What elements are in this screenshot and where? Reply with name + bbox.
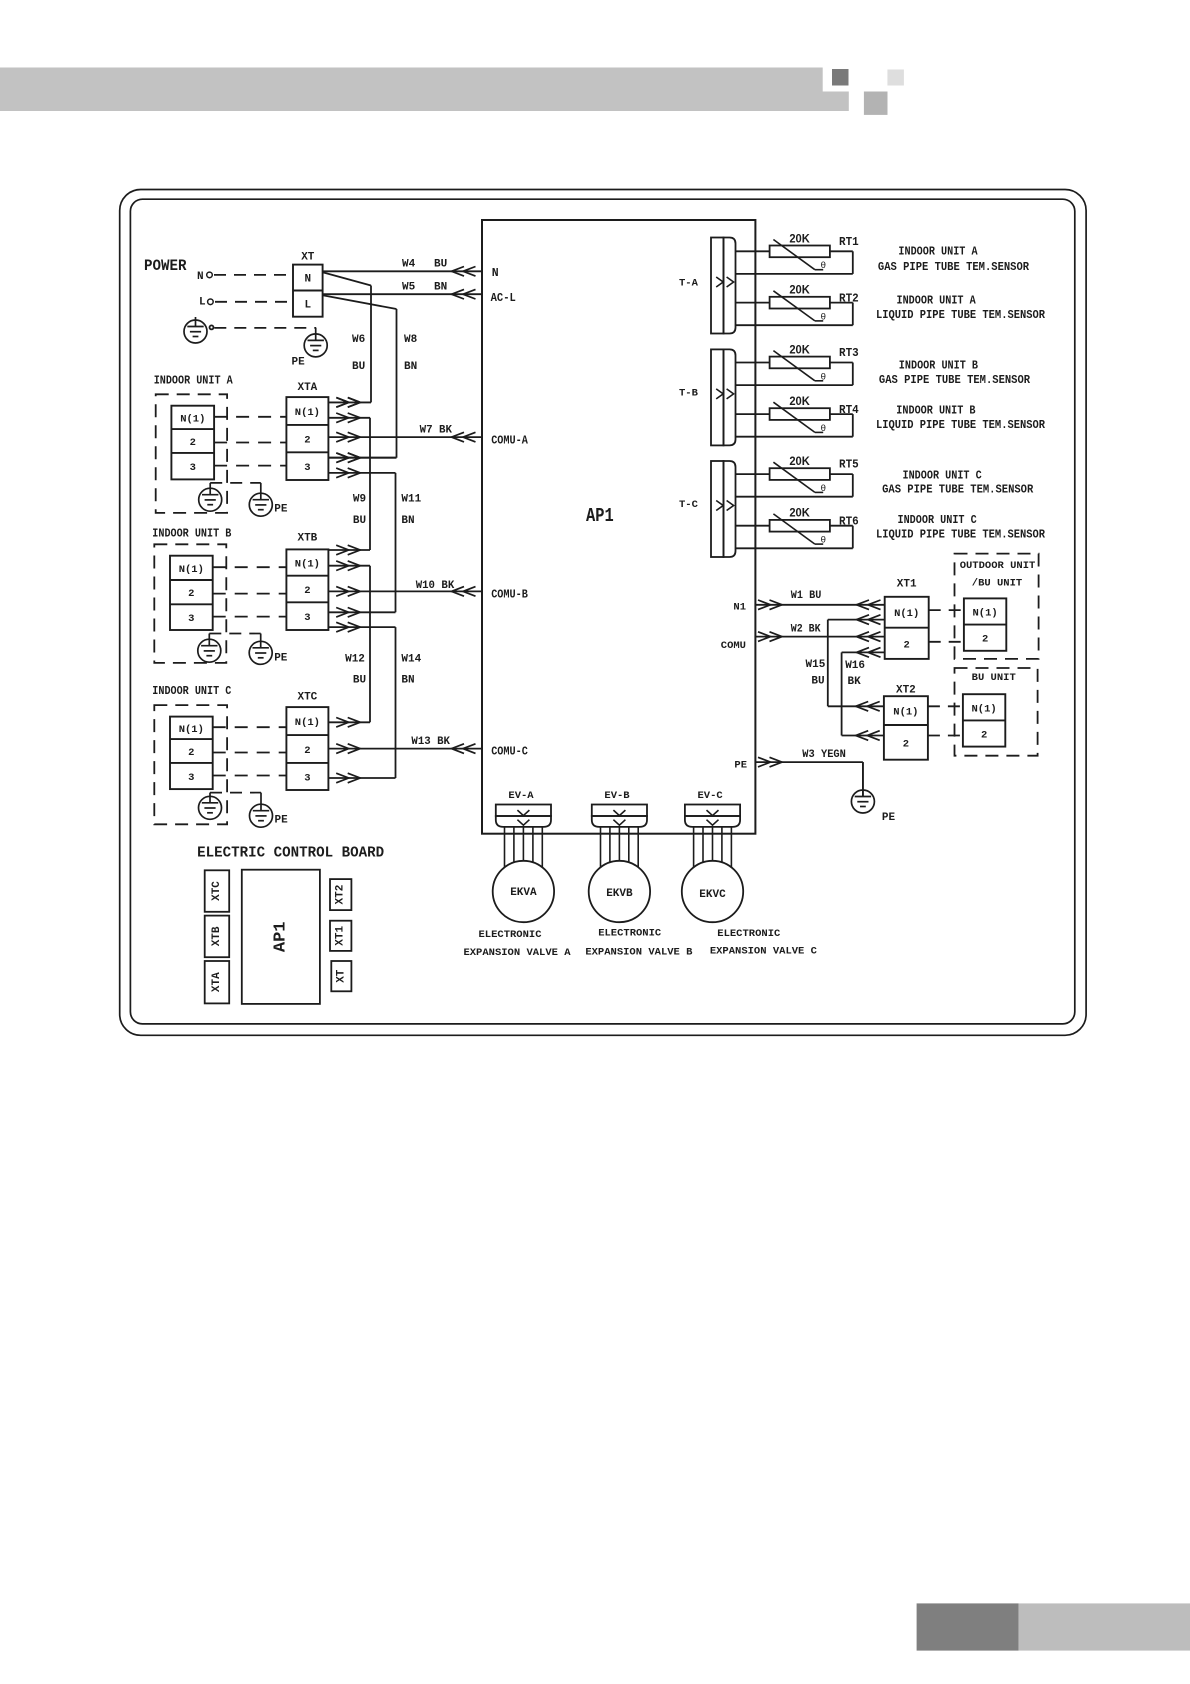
svg-text:XT1: XT1 [897,579,917,591]
connector T-C [711,461,724,557]
svg-text:3: 3 [304,612,310,624]
svg-text:XT2: XT2 [335,885,347,905]
wire RT4 return [830,413,853,415]
svg-text:EKVA: EKVA [510,887,537,899]
ground PE C [250,804,273,827]
wire W5 BN [323,293,482,295]
svg-text:ELECTRONIC: ELECTRONIC [717,928,781,940]
svg-text:INDOOR UNIT C: INDOOR UNIT C [152,685,231,698]
svg-text:AP1: AP1 [271,921,290,952]
svg-text:XTB: XTB [211,926,223,946]
connector arrows W7 left [336,432,349,442]
terminal block XTC [286,707,328,790]
wire W13 BK (XTC 2 to COMU-C) [328,748,482,750]
svg-text:INDOOR UNIT B: INDOOR UNIT B [899,360,978,373]
terminal block outdoor unit [964,598,1006,650]
svg-text:RT3: RT3 [839,346,859,360]
terminal block XT2 [884,696,928,760]
svg-text:W1 BU: W1 BU [791,590,822,602]
connector arrows XTB N(1) in [336,545,349,555]
board connector XTC [205,870,230,912]
connector arrows XTC N(1) in [336,718,349,728]
svg-text:2: 2 [904,640,910,652]
svg-text:2: 2 [190,437,196,449]
connector arrows XTA N(1) in [336,398,349,408]
svg-text:L: L [199,297,206,309]
wire RT3 lead [736,362,770,364]
connector arrows W10 right [463,587,476,597]
svg-text:COMU: COMU [721,640,746,652]
connector arrows W16 lower [867,731,880,741]
svg-text:2: 2 [188,747,194,759]
connector arrows W10 left [336,587,349,597]
ground indoor B [198,639,221,662]
svg-text:XT1: XT1 [335,926,347,946]
connector arrows W13 left [336,744,349,754]
ground power earth [184,320,207,343]
connector arrows W15 upper [868,615,881,625]
thermistor RT6 [770,520,830,532]
wires EV-A to EKVA [504,827,506,867]
indoor unit B dashed enclosure [154,544,226,663]
svg-text:PE: PE [734,760,747,772]
svg-text:ELECTRIC CONTROL BOARD: ELECTRIC CONTROL BOARD [197,845,384,862]
svg-text:2: 2 [981,730,987,742]
connector EV-A [496,805,551,817]
svg-text:2: 2 [982,634,988,646]
svg-text:20K: 20K [789,396,810,408]
svg-text:LIQUID PIPE TUBE TEM.SENSOR: LIQUID PIPE TUBE TEM.SENSOR [876,419,1045,432]
svg-text:BU: BU [353,674,366,686]
svg-text:INDOOR UNIT B: INDOOR UNIT B [896,405,975,418]
connector arrows W13 right [463,744,476,754]
svg-text:20K: 20K [789,508,810,520]
wire stub XTB N(1) out [328,565,370,567]
ground PE (W3) [851,790,874,813]
svg-text:N(1): N(1) [893,707,918,719]
svg-text:XTA: XTA [211,972,223,992]
ground indoor C [199,796,222,819]
svg-text:N(1): N(1) [180,413,205,425]
connector arrows T-B [716,389,723,399]
wire dashed earth to PE [214,327,316,329]
connector arrows W8 [336,453,349,463]
svg-text:W10 BK: W10 BK [416,580,455,592]
wire W11 BN (XTA to XTB) [395,473,397,612]
thermistor RT2 [770,297,830,309]
connector arrows XTB N(1) out [336,561,349,571]
svg-text:N(1): N(1) [295,407,320,419]
svg-text:LIQUID PIPE TUBE TEM.SENSOR: LIQUID PIPE TUBE TEM.SENSOR [876,528,1045,541]
svg-text:W14: W14 [401,653,421,665]
svg-text:GAS PIPE TUBE TEM.SENSOR: GAS PIPE TUBE TEM.SENSOR [878,261,1029,274]
svg-text:N: N [304,274,311,286]
wire RT1 lead [736,250,770,252]
svg-text:20K: 20K [789,233,810,245]
svg-text:W13 BK: W13 BK [411,736,450,748]
svg-text:W12: W12 [345,653,365,665]
wire dashed A N(1) [214,416,286,418]
svg-text:3: 3 [304,462,310,474]
svg-text:N(1): N(1) [295,559,320,571]
svg-text:θ: θ [821,260,826,271]
svg-text:EXPANSION VALVE A: EXPANSION VALVE A [463,947,571,959]
svg-text:N: N [492,267,499,280]
connector arrows W2 (XT1 side) [868,632,881,642]
wire dashed C 2 [213,752,287,754]
svg-text:PE: PE [275,815,289,827]
svg-text:OUTDOOR UNIT: OUTDOOR UNIT [960,560,1036,572]
wire W7 BK (XTA 2 to COMU-A) [328,436,482,438]
svg-text:N: N [197,271,204,283]
wire W10 BK (XTB 2 to COMU-B) [328,590,482,592]
wire RT6 return [830,525,853,527]
svg-text:RT5: RT5 [839,458,859,472]
svg-text:T-B: T-B [679,387,699,399]
wire RT5 lead [736,473,770,475]
svg-text:θ: θ [821,535,826,546]
svg-text:EKVC: EKVC [699,889,726,901]
PCB AP1 [482,220,755,834]
wire W2 BK [755,636,884,638]
svg-text:GAS PIPE TUBE TEM.SENSOR: GAS PIPE TUBE TEM.SENSOR [879,374,1030,387]
svg-text:INDOOR UNIT C: INDOOR UNIT C [898,514,977,527]
svg-text:AC-L: AC-L [491,292,516,305]
wire stub XTA 3 in [328,457,396,459]
terminal block BU unit [963,694,1005,746]
svg-text:2: 2 [304,745,310,757]
svg-text:BU UNIT: BU UNIT [972,672,1016,684]
expansion valve EKVA [493,861,554,922]
svg-text:BN: BN [404,361,417,373]
svg-text:EV-A: EV-A [508,790,534,802]
svg-text:W6: W6 [352,334,365,346]
connector EV-C [685,805,740,817]
svg-text:EXPANSION VALVE B: EXPANSION VALVE B [585,947,693,959]
svg-text:20K: 20K [789,285,810,297]
svg-text:N(1): N(1) [179,564,204,576]
svg-text:EV-B: EV-B [604,790,630,802]
wire dashed C 3 [213,775,287,777]
wire W8 BN (XT L to XTA) [323,295,397,309]
svg-text:XTC: XTC [211,881,223,901]
terminal block XTB [286,549,328,630]
connector arrows W2 (AP1 side) [758,632,771,642]
wire RT2 lead [736,302,770,304]
svg-text:/BU UNIT: /BU UNIT [972,578,1022,590]
svg-text:2: 2 [188,588,194,600]
thermistor RT3 [770,357,830,369]
wire dashed A 3 [214,465,286,467]
wire W15 BU (XT1 to XT2) [828,619,885,621]
svg-text:XTB: XTB [297,533,317,545]
svg-text:BK: BK [848,676,862,688]
svg-text:3: 3 [190,462,196,474]
wire dashed A 2 [214,442,286,444]
connector chevrons EV-A [517,810,529,816]
connector EV-B [592,805,647,817]
wire W14 BN (XTB to XTC) [395,627,397,778]
connector arrows XTA 3 out [336,468,349,478]
svg-text:BN: BN [401,515,414,527]
svg-text:2: 2 [304,435,310,447]
terminal block XTA [286,397,328,480]
svg-text:INDOOR UNIT A: INDOOR UNIT A [154,375,233,388]
wire RT3 return [830,362,853,364]
connector arrows W6 [336,398,349,408]
terminal block XT [293,265,323,317]
svg-text:AP1: AP1 [586,505,614,527]
svg-text:θ: θ [821,423,826,434]
connector arrows W5 [463,289,476,299]
svg-text:INDOOR UNIT B: INDOOR UNIT B [152,528,231,541]
connector arrows T-A [716,277,723,287]
svg-text:GAS PIPE TUBE TEM.SENSOR: GAS PIPE TUBE TEM.SENSOR [882,484,1033,497]
wire dashed C N(1) [213,726,287,728]
wire stub XTA N(1) out [328,417,370,419]
svg-text:2: 2 [304,585,310,597]
svg-text:W8: W8 [404,334,418,346]
connector arrows XTC 3 in [336,773,349,783]
wire dashed XT1-outdoor N(1) [929,609,964,611]
svg-text:BN: BN [401,674,414,686]
wire W1 BU [755,604,884,606]
ground indoor A [199,488,222,511]
wire dashed B 2 [213,593,287,595]
wire W16 BK (XT1 to XT2) [842,651,885,653]
svg-text:POWER: POWER [144,257,187,275]
svg-text:W5: W5 [402,282,416,294]
svg-text:INDOOR UNIT A: INDOOR UNIT A [897,295,976,308]
connector arrows W7 right [463,432,476,442]
svg-text:W15: W15 [806,659,826,671]
terminal block indoor A [171,406,214,480]
wire stub XTA 3 out [328,472,395,474]
svg-text:EV-C: EV-C [698,790,724,802]
connector arrows XTB 3 out [336,622,349,632]
wire dashed XT2-BU 2 [928,735,963,737]
connector T-A [711,238,724,334]
connector arrows W3 [758,757,771,767]
terminal block indoor B [170,556,213,630]
svg-text:ELECTRONIC: ELECTRONIC [598,928,662,940]
expansion valve EKVB [589,861,650,922]
ground PE (power) [304,334,327,357]
svg-text:BU: BU [353,515,366,527]
board connector XT1 [330,921,351,951]
connector arrows W16 upper [868,648,881,658]
svg-text:ELECTRONIC: ELECTRONIC [478,929,542,941]
svg-text:COMU-B: COMU-B [491,589,528,602]
svg-text:W4: W4 [402,259,416,271]
svg-text:L: L [304,300,311,312]
wire dashed XT2-BU N(1) [928,705,963,707]
svg-text:N(1): N(1) [894,608,919,620]
wire W3 YEGN [755,761,863,763]
connector arrows W15 lower [867,702,880,712]
svg-text:INDOOR UNIT C: INDOOR UNIT C [903,470,982,483]
svg-text:RT1: RT1 [839,235,859,249]
connector arrows XTA 3 in [336,453,349,463]
svg-text:20K: 20K [789,344,810,356]
svg-text:LIQUID PIPE TUBE TEM.SENSOR: LIQUID PIPE TUBE TEM.SENSOR [876,309,1045,322]
svg-text:INDOOR UNIT A: INDOOR UNIT A [898,245,977,258]
svg-text:W11: W11 [401,493,421,505]
svg-text:N1: N1 [733,602,746,614]
svg-text:N(1): N(1) [295,717,320,729]
wire RT6 lead [736,525,770,527]
BU unit dashed enclosure [955,668,1038,756]
wire W6 BU (XT N to XTA) [323,272,371,285]
thermistor RT1 [770,246,830,258]
connector arrows XTB 3 in [336,608,349,618]
svg-text:COMU-A: COMU-A [491,435,528,448]
svg-text:XTC: XTC [297,692,317,704]
indoor unit C dashed enclosure [154,705,227,824]
svg-text:BU: BU [352,361,365,373]
svg-text:PE: PE [882,812,896,824]
thermistor RT5 [770,468,830,480]
thermistor RT4 [770,408,830,420]
wire dashed XT1-outdoor 2 [929,641,964,643]
svg-text:T-A: T-A [679,278,699,290]
svg-text:W3 YEGN: W3 YEGN [802,749,846,761]
svg-text:W2 BK: W2 BK [791,624,821,636]
svg-text:BU: BU [434,259,447,271]
ground PE A [249,493,272,516]
wire RT1 return [830,250,853,252]
svg-text:3: 3 [188,772,194,784]
svg-text:EXPANSION VALVE C: EXPANSION VALVE C [710,946,818,958]
svg-text:3: 3 [304,773,310,785]
connector chevrons EV-B [613,810,625,816]
svg-text:PE: PE [274,653,288,665]
svg-text:W7 BK: W7 BK [420,425,453,437]
wire RT5 return [830,473,853,475]
wires EV-B to EKVB [600,827,602,867]
indoor unit A dashed enclosure [156,394,227,513]
svg-text:N(1): N(1) [971,703,996,715]
svg-text:PE: PE [274,504,288,516]
board connector XTB [205,916,230,958]
ground PE B [249,641,272,664]
wire W9 BU (XTA to XTB) [369,418,371,550]
board connector XT2 [330,879,351,910]
board connector XT [331,961,351,991]
expansion valve EKVC [682,861,743,922]
terminal block indoor C [170,717,213,790]
svg-text:BN: BN [434,282,447,294]
wire dashed B 3 [213,616,287,618]
connector chevrons EV-C [707,810,719,816]
svg-text:COMU-C: COMU-C [491,746,528,759]
wire dashed N to XT [214,274,293,276]
wire stub XTB 3 out [328,626,395,628]
wire W12 BU (XTB to XTC) [369,566,371,723]
svg-text:PE: PE [292,357,306,369]
wire RT2 return [830,302,853,304]
connector arrows W1 (AP1 side) [758,600,771,610]
svg-text:T-C: T-C [679,499,699,511]
svg-text:N(1): N(1) [179,724,204,736]
svg-text:2: 2 [903,739,909,751]
svg-text:W9: W9 [353,493,366,505]
connector arrows W4 [463,267,476,277]
svg-text:XTA: XTA [297,382,317,394]
outdoor unit dashed enclosure [955,554,1039,659]
svg-text:N(1): N(1) [972,608,997,620]
svg-text:W16: W16 [845,660,865,672]
wire stub XTA N(1) in [328,401,371,403]
connector arrows W1 (XT1 side) [868,600,881,610]
terminal block XT1 [885,597,929,659]
svg-text:BU: BU [811,676,824,688]
wire RT4 lead [736,413,770,415]
svg-text:3: 3 [188,613,194,625]
svg-text:EKVB: EKVB [606,888,633,900]
svg-text:XT2: XT2 [896,685,916,697]
wire W4 BU [323,270,482,272]
svg-text:θ: θ [821,312,826,323]
connector arrows XTA N(1) out [336,413,349,423]
svg-text:XT: XT [301,252,315,264]
wire dashed L to XT [215,301,293,303]
svg-text:θ: θ [821,371,826,382]
connector T-B [711,349,724,445]
board connector XTA [205,961,230,1003]
board AP1 [242,870,320,1004]
svg-text:XT: XT [335,969,347,983]
svg-text:θ: θ [821,483,826,494]
wire dashed B N(1) [213,566,287,568]
wires EV-C to EKVC [693,827,695,867]
svg-text:20K: 20K [789,456,810,468]
connector arrows T-C [716,501,723,511]
